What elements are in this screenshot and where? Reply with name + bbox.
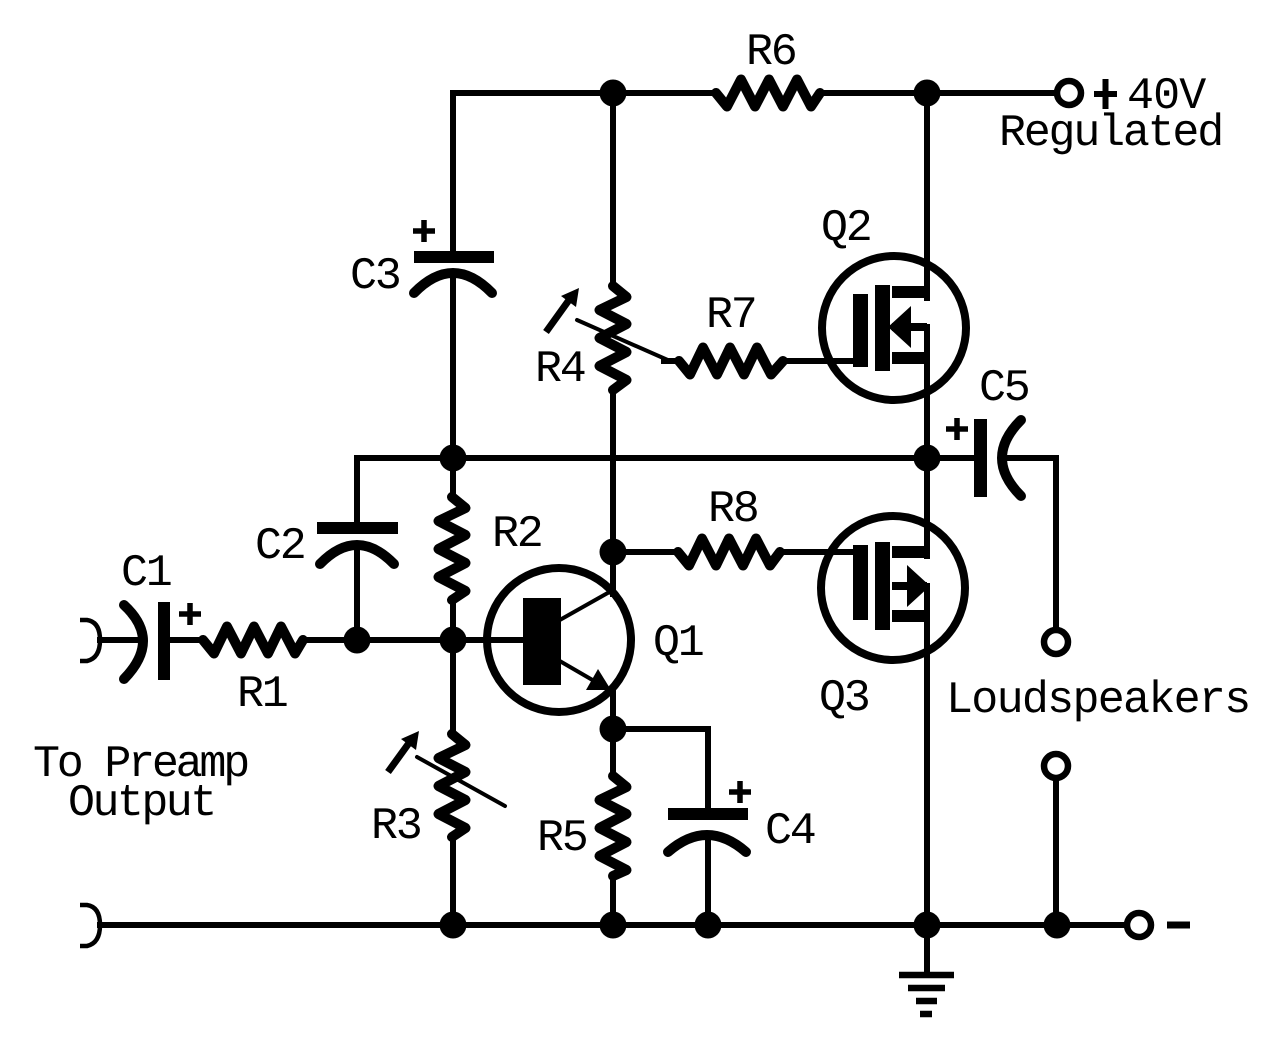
wire R2 upper stub xyxy=(450,458,456,497)
terminal +40V open circle xyxy=(1057,81,1081,105)
capacitor C3 xyxy=(413,220,494,293)
wire Q1 emitter to node xyxy=(610,690,616,729)
node bottom R5 xyxy=(600,912,627,939)
resistor R1 xyxy=(203,627,303,654)
svg-text:R7: R7 xyxy=(706,290,756,341)
capacitor C4 xyxy=(668,781,751,852)
wire R8 to Q3 gate xyxy=(780,549,856,555)
label +40V xyxy=(1094,79,1117,109)
transistor Q3 (N-MOSFET) xyxy=(821,516,965,660)
terminal loudspeaker upper xyxy=(1044,630,1068,654)
svg-text:C3: C3 xyxy=(350,251,400,302)
svg-text:C4: C4 xyxy=(765,806,815,857)
wire input to C1 xyxy=(100,637,144,643)
wire loudspeaker lower to bottom rail xyxy=(1053,779,1059,925)
ground xyxy=(899,925,954,1014)
wire C3 to mid rail xyxy=(450,279,456,458)
svg-text:Loudspeakers: Loudspeakers xyxy=(946,675,1249,726)
node bottom R3 xyxy=(440,912,467,939)
svg-text:Output: Output xyxy=(68,778,215,829)
wire C4 to bottom rail xyxy=(705,837,711,925)
node input C2 junction xyxy=(344,627,371,654)
svg-text:R1: R1 xyxy=(237,669,287,720)
wire top rail left segment xyxy=(453,90,716,96)
resistor R8 xyxy=(678,539,780,566)
R4 wiper arrow xyxy=(546,288,579,332)
svg-text:R3: R3 xyxy=(371,801,421,852)
wire C4 branch top xyxy=(613,729,708,810)
wire R7 left stub xyxy=(664,358,679,364)
resistor R3 (pot) xyxy=(439,734,466,837)
svg-text:R4: R4 xyxy=(535,344,585,395)
wire R4 to R8 node (crosses mid rail) xyxy=(610,390,616,594)
node bottom Q3 source / ground xyxy=(914,912,941,939)
wire R8 left stub xyxy=(613,549,678,555)
wire Q2 source to mid rail and Q3 drain xyxy=(924,327,930,556)
capacitor C5 xyxy=(946,418,1021,497)
node mid rail C3 junction xyxy=(440,445,467,472)
svg-text:C1: C1 xyxy=(121,548,171,599)
resistor R6 xyxy=(716,80,820,107)
wire R3 column upper xyxy=(450,640,456,734)
wire bottom rail xyxy=(100,922,1127,928)
wire R4 column upper xyxy=(610,93,616,287)
wire C3 branch upper xyxy=(450,93,456,251)
resistor R4 (pot) xyxy=(600,286,627,390)
wire Q3 source to bottom rail xyxy=(924,586,930,925)
svg-text:R2: R2 xyxy=(492,509,542,560)
resistor R2 xyxy=(439,497,466,600)
node R8 junction xyxy=(600,539,627,566)
wire R5 upper stub xyxy=(610,729,616,776)
wire R3 to bottom rail xyxy=(450,837,456,925)
node top rail R4 junction xyxy=(600,80,627,107)
wire R7 to Q2 gate xyxy=(783,358,856,364)
node emitter junction xyxy=(600,716,627,743)
svg-text:Q3: Q3 xyxy=(819,673,869,724)
wire top rail right segment xyxy=(820,90,1056,96)
terminal loudspeaker lower xyxy=(1044,754,1068,778)
capacitor C1 xyxy=(124,602,201,680)
wire C2 to input node xyxy=(354,549,360,640)
capacitor C2 xyxy=(317,522,398,564)
terminal bottom-left arc xyxy=(80,905,100,946)
svg-text:Q1: Q1 xyxy=(653,618,703,669)
wire C5 to loudspeaker terminal xyxy=(1005,458,1056,629)
minus sign xyxy=(1167,922,1190,929)
R3 wiper arrow xyxy=(388,731,419,772)
node mid rail Q2/Q3 junction xyxy=(914,445,941,472)
svg-text:R5: R5 xyxy=(537,813,587,864)
transistor Q2 (P-MOSFET) xyxy=(822,256,966,400)
R4 wiper line to R7 xyxy=(577,320,670,361)
terminal input arc xyxy=(80,620,100,661)
wire mid rail xyxy=(357,455,974,461)
transistor Q1 (BJT) xyxy=(487,568,631,712)
wire R5 to bottom rail xyxy=(610,876,616,925)
node bottom loudspeaker xyxy=(1044,912,1071,939)
svg-text:C2: C2 xyxy=(255,521,305,572)
svg-text:C5: C5 xyxy=(979,363,1029,414)
wire C2 branch upper xyxy=(354,458,360,522)
wire C1 to R1 xyxy=(170,637,204,643)
svg-text:R8: R8 xyxy=(708,484,758,535)
svg-text:Regulated: Regulated xyxy=(999,108,1222,159)
node top rail Q2 drain junction xyxy=(914,80,941,107)
node bottom C4 xyxy=(695,912,722,939)
wire Q2 drain column xyxy=(924,93,930,298)
terminal minus open circle xyxy=(1127,913,1151,937)
node input R2 junction xyxy=(440,627,467,654)
wire R2 to base node xyxy=(450,600,456,640)
svg-text:Q2: Q2 xyxy=(821,203,871,254)
wire R1 to Q1 base xyxy=(303,637,523,643)
svg-text:R6: R6 xyxy=(746,27,796,78)
resistor R7 xyxy=(679,348,783,375)
resistor R5 xyxy=(600,776,627,876)
R3 wiper line xyxy=(417,757,505,806)
